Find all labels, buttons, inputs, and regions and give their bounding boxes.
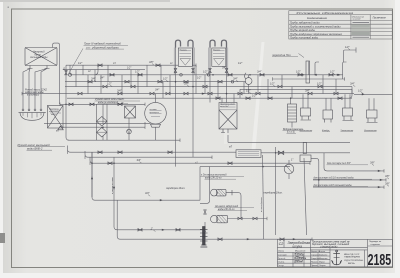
tank T4 drinking water cistern <box>48 106 64 130</box>
svg-text:и к · уборочной приборки: и к · уборочной приборки <box>86 45 119 49</box>
svg-text:3/8″: 3/8″ <box>385 174 390 178</box>
svg-text:1/2″: 1/2″ <box>135 70 140 74</box>
hand pump riser <box>91 152 93 197</box>
svg-text:3/8″: 3/8″ <box>149 60 154 64</box>
svg-text:3/4″: 3/4″ <box>137 158 142 162</box>
corner speck <box>8 7 9 8</box>
leaning vertical <box>304 158 307 235</box>
svg-text:созданию: созданию <box>371 244 381 246</box>
svg-text:к умывальникам: к умывальникам <box>112 177 114 194</box>
valves on pipe F <box>78 92 82 95</box>
pipe E <box>65 86 352 88</box>
check valve on M2 <box>278 151 283 154</box>
pump suction corner <box>200 167 210 204</box>
pump C3 stem <box>288 160 290 179</box>
svg-text:3/4″: 3/4″ <box>91 77 96 81</box>
loop1 right pipe <box>188 40 193 47</box>
svg-text:цистерна: цистерна <box>150 112 160 114</box>
valve on riser D <box>65 71 68 75</box>
svg-text:1/2″: 1/2″ <box>78 62 82 65</box>
svg-text:Трубы воздушных переливных ант: Трубы воздушных переливных антенных <box>290 32 343 36</box>
svg-text:переборка 19шп.: переборка 19шп. <box>264 192 283 195</box>
galley fixture 2 <box>323 110 333 123</box>
svg-text:Андрианов: Андрианов <box>293 257 307 260</box>
svg-text:1/2″: 1/2″ <box>270 81 275 85</box>
pipe M2 from heater box <box>261 152 350 154</box>
sea chest kingston <box>200 227 208 248</box>
label hand pump mid <box>95 98 141 104</box>
pipe L <box>300 141 350 143</box>
pipe A2 short <box>63 69 145 71</box>
svg-text:1/2″: 1/2″ <box>246 88 251 92</box>
svg-text:3/4″: 3/4″ <box>117 88 122 92</box>
vertical 19shp bulkhead <box>263 155 264 239</box>
paper crease streak <box>252 42 265 150</box>
bulkhead crossing lower <box>303 143 306 154</box>
svg-text:Масштаб: Масштаб <box>295 250 306 252</box>
valves on pipe G <box>216 97 220 100</box>
cistern line riser <box>311 158 319 187</box>
washbasin fixture 1 <box>301 108 312 120</box>
washstand main riser <box>102 104 104 140</box>
pipe I <box>44 123 151 125</box>
svg-text:Запас: Запас <box>278 250 285 252</box>
svg-text:1/2″: 1/2″ <box>345 45 350 49</box>
elbow to bus B <box>95 65 99 75</box>
svg-text:воды: воды <box>51 113 56 116</box>
gauge riser <box>308 61 310 75</box>
pipe F2 to frame <box>354 93 393 95</box>
svg-text:Шаблин: Шаблин <box>294 261 303 264</box>
legend sample swatch row4 <box>351 32 370 35</box>
label heater <box>283 128 305 134</box>
svg-text:3/8″: 3/8″ <box>370 161 375 165</box>
label hand pump left <box>24 88 48 96</box>
svg-text:ВЕРФЬ: ВЕРФЬ <box>348 262 356 265</box>
svg-text:1/2″: 1/2″ <box>252 95 256 98</box>
svg-text:и жирной воды: и жирной воды <box>320 245 337 248</box>
bathhouse riser <box>239 89 241 98</box>
pipe E3 <box>240 88 352 90</box>
svg-text:переборка 10шп.: переборка 10шп. <box>166 187 185 190</box>
valves on pipe H <box>69 103 73 106</box>
svg-text:Гл.стр.: Гл.стр. <box>278 265 285 267</box>
svg-text:3/4″: 3/4″ <box>305 88 310 92</box>
legend table grid <box>289 11 392 39</box>
pipe M to heater box <box>68 146 237 153</box>
loop2 left pipe <box>210 40 215 47</box>
svg-text:1/2″: 1/2″ <box>163 77 168 81</box>
washbasin fixture 3 <box>343 108 354 121</box>
arrows <box>91 74 383 241</box>
valves on loop pipes <box>174 68 177 72</box>
legend sample swatch row3 <box>351 28 370 31</box>
electric pump PC2 <box>211 215 228 222</box>
svg-text:Примечание: Примечание <box>373 17 387 19</box>
label el pump 2 <box>215 205 255 211</box>
svg-text:3/8″: 3/8″ <box>184 81 189 85</box>
svg-text:1/2″: 1/2″ <box>203 70 208 74</box>
svg-text:Трубы забортной воды: Трубы забортной воды <box>290 20 320 24</box>
valves on bus B <box>110 74 114 77</box>
svg-text:3/4″: 3/4″ <box>155 89 159 92</box>
label cistern line 1 <box>327 162 369 165</box>
svg-text:1″: 1″ <box>291 158 293 162</box>
pipe F sea water bus <box>22 93 354 95</box>
pipe Q3 cistern no18 <box>313 186 384 188</box>
dim labels <box>56 45 390 231</box>
svg-text:Трубы питьевой воды: Трубы питьевой воды <box>290 35 318 39</box>
filter drop <box>128 119 130 140</box>
valve riser D <box>66 65 69 140</box>
svg-text:кЛ: кЛ <box>56 129 59 133</box>
pipe bus A drinking water <box>66 64 196 66</box>
svg-text:Жуков: Жуков <box>318 261 325 263</box>
legend texts <box>290 11 387 40</box>
pipe U suction 1in <box>114 157 202 230</box>
pneumo tank drop <box>155 127 157 140</box>
svg-text:3/4″: 3/4″ <box>145 191 150 195</box>
label hand pump BKF <box>18 143 66 151</box>
svg-text:3/4″: 3/4″ <box>233 77 238 81</box>
valve sea riser <box>204 210 207 214</box>
pipe J <box>63 126 145 128</box>
pipe Q2 cistern no5-16 <box>313 179 386 181</box>
pipe K <box>68 139 180 141</box>
valves on pipe O <box>108 162 112 165</box>
tank T5 drop <box>228 129 300 142</box>
heater coil Z1 <box>288 104 297 122</box>
label tank T5 <box>220 104 236 109</box>
svg-text:на схеме: на схеме <box>352 19 361 21</box>
valves on pipe U <box>138 229 142 232</box>
svg-text:Цистерна: Цистерна <box>49 108 60 110</box>
electric pump PC1 <box>211 189 232 196</box>
svg-text:воды БКФ-2: воды БКФ-2 <box>27 146 43 150</box>
corner E3 <box>351 89 353 93</box>
label fixture 2 <box>322 130 330 132</box>
washbasin fixture 4 <box>367 110 378 123</box>
svg-text:Принял: Принял <box>311 265 318 267</box>
svg-text:Лавров: Лавров <box>318 265 325 267</box>
svg-text:Составил: Составил <box>278 254 288 256</box>
anchor emblem <box>332 250 342 265</box>
pipe H <box>60 103 145 105</box>
svg-text:кЛ: кЛ <box>229 145 232 149</box>
fixture drop 3 <box>345 94 350 108</box>
label fixture 4 <box>364 130 378 132</box>
tank T2 service cistern label <box>178 48 192 66</box>
pipe V bottom <box>206 238 313 240</box>
label cistern line 2 <box>313 177 372 180</box>
legend sample line row5 <box>353 36 370 38</box>
svg-text:Горбалев: Горбалев <box>319 254 327 256</box>
svg-text:питьевой воды: питьевой воды <box>30 56 48 59</box>
pipe S pump discharge <box>228 218 268 220</box>
svg-text:3/4″: 3/4″ <box>350 81 355 85</box>
corner bus to G <box>349 87 352 99</box>
label fixture 3 <box>341 130 355 132</box>
svg-text:питьевой: питьевой <box>49 110 59 113</box>
pump PC1 discharge <box>232 193 241 219</box>
svg-text:Трубы жирной воды: Трубы жирной воды <box>290 28 315 32</box>
pipe O <box>90 157 310 163</box>
svg-text:шхуна: шхуна <box>293 245 303 249</box>
svg-text:в изоляции: в изоляции <box>27 94 40 97</box>
loop1 left pipe <box>176 40 181 47</box>
svg-text:пневмо-: пневмо- <box>150 109 158 111</box>
svg-text:С2: С2 <box>279 242 284 246</box>
flange ticks <box>22 64 386 241</box>
svg-text:ГЛАВВОЕНДРЕВ: ГЛАВВОЕНДРЕВ <box>344 256 361 259</box>
heater box B1 <box>236 150 261 158</box>
svg-text:1/2″: 1/2″ <box>317 81 322 85</box>
legend sample swatch row2 <box>351 25 370 28</box>
pump circle C1 <box>245 73 252 85</box>
svg-text:Наименование: Наименование <box>307 16 327 20</box>
bus tie risers <box>88 65 336 98</box>
dim label leader ticks <box>94 48 389 231</box>
pipe G <box>67 97 352 99</box>
bus tie risers 2 <box>76 65 234 102</box>
title block grid <box>277 239 392 266</box>
valves on pipe D <box>88 80 92 83</box>
valves on pipe S <box>238 217 242 220</box>
label fixture 1 <box>300 130 314 132</box>
label deck note <box>84 42 129 50</box>
pneumo tank circle C2 <box>145 102 167 127</box>
svg-text:Пр.н.к.б.: Пр.н.к.б. <box>278 258 286 260</box>
valves on bus A <box>98 64 102 67</box>
heater coil feed <box>291 98 292 127</box>
svg-text:3/4″: 3/4″ <box>257 70 262 74</box>
sea chest riser <box>204 222 206 239</box>
svg-text:воды 2м³: воды 2м³ <box>220 105 229 108</box>
svg-text:1/2″: 1/2″ <box>127 66 131 69</box>
label tank T4 <box>49 108 60 116</box>
svg-text:МИН-СУД СССР: МИН-СУД СССР <box>344 254 360 256</box>
svg-text:1/2″: 1/2″ <box>107 81 112 85</box>
loop2 right pipe <box>222 40 227 47</box>
tank T1 vent gooseneck <box>53 43 60 104</box>
pump circle C3 <box>284 164 294 174</box>
junction riser <box>69 65 71 75</box>
legend sample line row1 <box>353 21 370 23</box>
pipe bus B main <box>70 74 343 76</box>
sink feed pipes <box>23 69 47 110</box>
svg-text:Расходн.: Расходн. <box>213 49 221 52</box>
deck vent pipe <box>343 47 356 62</box>
tank T6 <box>300 155 311 162</box>
svg-text:3/4″: 3/4″ <box>222 66 226 69</box>
label el pump 1 <box>201 174 245 180</box>
signature scribbles <box>295 253 305 261</box>
scan mark left edge <box>0 233 5 243</box>
vertical right of pumps <box>275 147 277 235</box>
valves on pipe V <box>218 238 222 241</box>
svg-text:Начало: Начало <box>311 261 318 263</box>
svg-text:Мищенко: Мищенко <box>319 258 327 260</box>
leader diagonal <box>69 49 83 74</box>
valves on pipe M <box>98 151 102 154</box>
pipe D <box>65 81 246 83</box>
svg-text:Трубы мытьевой и гигиенической: Трубы мытьевой и гигиенической воды <box>290 24 341 28</box>
sink basin <box>19 109 46 120</box>
deck riser 2 <box>343 62 347 79</box>
svg-text:1/2″: 1/2″ <box>358 88 363 92</box>
pipe T <box>117 200 203 239</box>
deck riser 1 <box>315 62 319 75</box>
pump C1 feeds <box>248 75 250 94</box>
svg-text:1/2″: 1/2″ <box>296 70 301 74</box>
pipe Q1 cistern no1 <box>327 170 384 172</box>
svg-text:3/4″: 3/4″ <box>100 76 104 79</box>
fixture drop 2 <box>326 98 331 110</box>
valves on pipe E <box>103 85 107 88</box>
riser to Q1 <box>324 153 327 171</box>
pipe P <box>200 166 290 168</box>
small pump symbol <box>127 129 132 134</box>
svg-text:Расходн.: Расходн. <box>180 49 188 52</box>
svg-text:Условные обозначения: Условные обозначения <box>296 11 354 15</box>
svg-text:1/2″: 1/2″ <box>330 70 335 74</box>
label cistern line 3 <box>313 184 368 187</box>
label pneumo tank <box>150 109 160 114</box>
svg-text:Д: Д <box>62 67 65 71</box>
svg-text:2-ху-хп: 2-ху-хп <box>319 251 325 253</box>
pipe C <box>273 78 345 80</box>
svg-text:СУДОСТРОИТЕЛЬН.: СУДОСТРОИТЕЛЬН. <box>344 260 364 262</box>
svg-text:к пенообразов.: к пенообразов. <box>261 196 263 212</box>
fixture drop 4 <box>369 98 374 110</box>
svg-text:1″: 1″ <box>151 227 153 231</box>
fixture drop 1 <box>303 94 308 108</box>
bypass double diamond <box>97 104 108 140</box>
label tank T1 <box>30 51 48 60</box>
tank T3 service cistern label <box>212 48 226 66</box>
connector P to R <box>199 167 201 201</box>
svg-text:1/2″: 1/2″ <box>197 76 201 79</box>
filter F1 <box>125 106 136 119</box>
svg-text:1/2″: 1/2″ <box>238 62 242 65</box>
svg-text:Гл.инж.: Гл.инж. <box>278 262 285 264</box>
tank T5 washing water cistern <box>219 103 237 133</box>
label perekhod <box>272 54 298 57</box>
tank T1 pressure drinking water <box>25 48 57 69</box>
riser at loop base <box>195 65 197 93</box>
bulkhead crossing upper <box>299 54 310 84</box>
svg-text:3/8″: 3/8″ <box>385 181 390 185</box>
loop riser double walls <box>174 48 228 76</box>
svg-text:2185: 2185 <box>368 252 392 269</box>
pipe R <box>92 152 200 200</box>
pipe N <box>85 151 212 157</box>
small tank near pumps <box>0 0 1 1</box>
